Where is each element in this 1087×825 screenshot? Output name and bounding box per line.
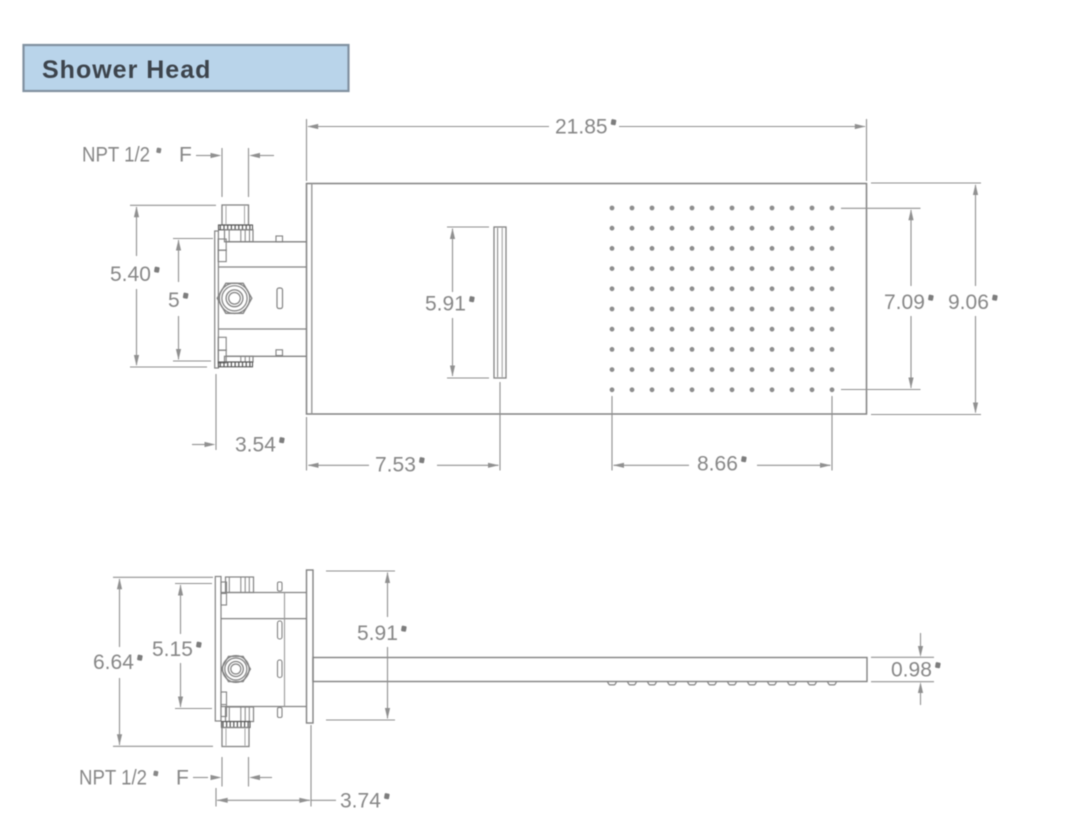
svg-text:6.64: 6.64: [93, 651, 134, 674]
top view: valve body lower line: [218, 328, 306, 330]
top view: lower clip B: [218, 350, 226, 363]
dimension NPT 1/2 F top label: [82, 144, 274, 198]
svg-text:F: F: [176, 767, 189, 790]
side view: slot 3: [278, 660, 283, 678]
top view: waterfall slot: [494, 227, 506, 378]
svg-text:5.40: 5.40: [110, 263, 151, 286]
dimension 9.06 plate height: [871, 183, 998, 415]
svg-text:NPT 1/2: NPT 1/2: [82, 144, 150, 167]
top view: valve body bottom edge: [226, 355, 307, 357]
dimension 3.74 mount depth: [216, 725, 390, 813]
svg-text:21.85: 21.85: [555, 116, 608, 139]
dimension 21.85 width: [307, 116, 867, 182]
svg-text:9.06: 9.06: [948, 291, 989, 314]
side view: bottom clip band: [226, 707, 254, 722]
dimension 5.91 slot height: [425, 227, 489, 378]
top view: thread collar hatch: [219, 225, 253, 230]
top view: bottom edge tab: [276, 350, 283, 356]
dimension 5.15 body height: [152, 584, 212, 709]
dimension 6.64 overall height: [93, 577, 213, 746]
title text: [42, 56, 211, 84]
dimension NPT 1/2 F bottom label: [79, 757, 272, 790]
top view: collar nut band: [225, 230, 254, 242]
side view: slot 4: [278, 708, 283, 718]
top view: wall plate edge line: [311, 184, 313, 415]
dimension 0.98 arm thickness: [871, 633, 941, 705]
title box: [24, 45, 349, 91]
side view: top clip band: [226, 577, 254, 593]
svg-text:8.66: 8.66: [697, 453, 738, 476]
dimension 5.40 height: [110, 205, 216, 367]
side view: valve body: [221, 593, 307, 707]
svg-text:5: 5: [168, 289, 180, 312]
side view: wall plate: [307, 570, 314, 723]
top view: lower thread hatch: [219, 362, 253, 367]
top view: hex nut fitting: [217, 283, 252, 313]
dimension 5 inner height: [168, 239, 213, 362]
top view: inlet pipe stub: [222, 205, 249, 225]
dimension 7.09 grid height: [841, 208, 934, 389]
svg-text:3.54: 3.54: [235, 434, 276, 457]
top view: mounting plate: [215, 231, 219, 368]
side view: bottom clip column: [221, 692, 227, 717]
side view: slot 2: [278, 621, 283, 639]
top view: upper clip A: [218, 239, 226, 250]
top view: top edge tab: [276, 236, 283, 242]
side view: mounting plate: [215, 577, 221, 722]
top view: upper clip B: [218, 250, 226, 261]
side view: hex nut fitting: [221, 656, 250, 683]
top view: lower clip A: [218, 337, 226, 350]
side view: outlet pipe stub: [222, 728, 249, 747]
svg-text:5.15: 5.15: [152, 638, 193, 661]
svg-text:F: F: [179, 144, 192, 167]
svg-text:5.91: 5.91: [357, 622, 398, 645]
top view: small slot by nut: [277, 288, 283, 309]
dimension 7.53 slot offset: [307, 382, 501, 477]
svg-text:0.98: 0.98: [891, 659, 932, 682]
top view: nozzle dot grid: [610, 206, 835, 393]
svg-text:Shower Head: Shower Head: [42, 56, 211, 84]
svg-text:NPT 1/2: NPT 1/2: [79, 767, 147, 790]
side view: shower arm bar: [313, 658, 867, 682]
top view: lower collar band: [225, 356, 254, 362]
dimension 3.54 mount depth: [192, 374, 285, 457]
svg-text:7.09: 7.09: [884, 291, 925, 314]
side view: top clip column: [221, 582, 227, 605]
top view: shower head face plate: [307, 184, 867, 415]
side view: slot 1: [278, 582, 283, 591]
side view: nozzle dashes: [608, 682, 837, 685]
top view: valve body top edge: [226, 241, 307, 243]
side view: thread collar hatch: [222, 722, 251, 728]
dimension 8.66 grid width: [612, 396, 832, 476]
top view: valve body upper line: [218, 266, 306, 268]
svg-text:7.53: 7.53: [375, 454, 416, 477]
svg-text:3.74: 3.74: [340, 790, 381, 813]
svg-text:5.91: 5.91: [425, 293, 466, 316]
dimension 5.91 plate height: [326, 571, 407, 720]
